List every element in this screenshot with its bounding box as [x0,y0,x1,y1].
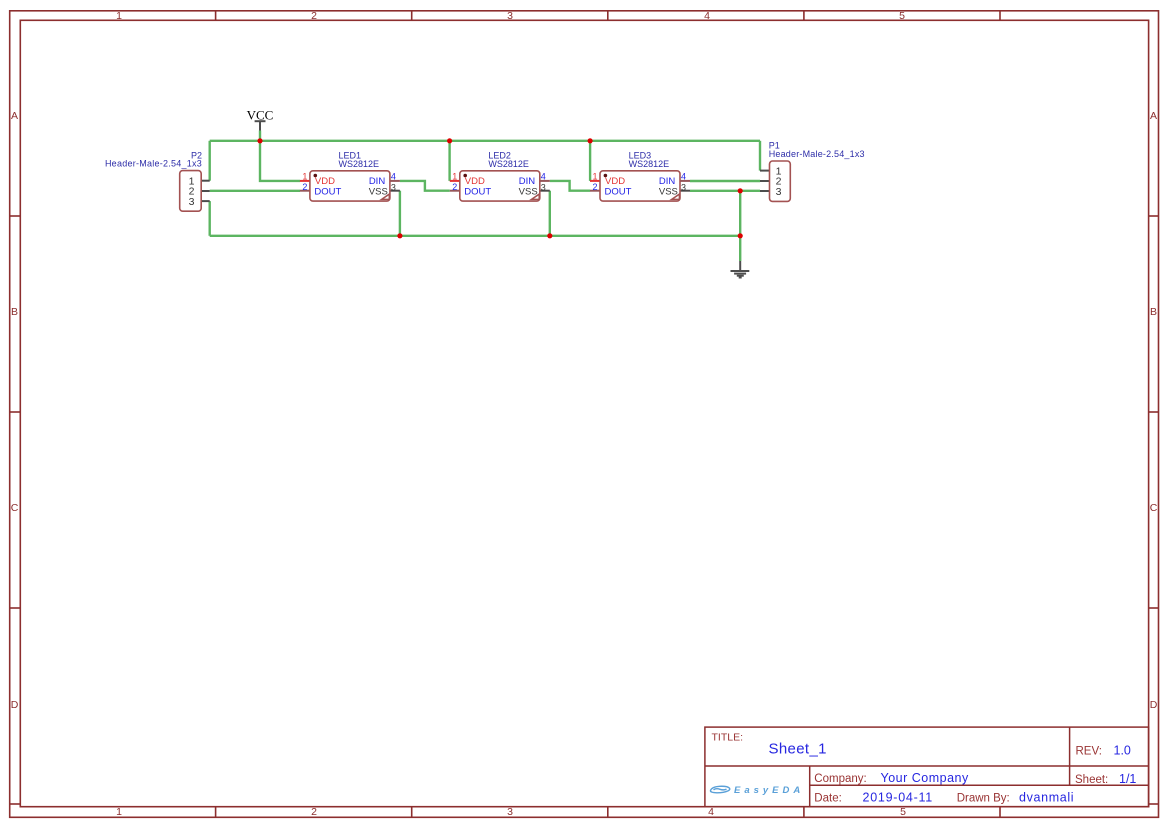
junction VSS net at ground drop top [738,188,743,193]
wire top VCC rail [210,140,760,142]
svg-text:4: 4 [704,10,710,22]
svg-text:2019-04-11: 2019-04-11 [863,791,934,805]
svg-text:VSS: VSS [369,186,388,197]
LED1 WS2812E [300,150,400,201]
svg-text:2: 2 [302,182,307,192]
wire P2 pin2 to LED1 DOUT [210,190,300,192]
wire bottom ground rail [210,235,741,237]
junction bottom rail LED2 [547,233,552,238]
svg-text:1: 1 [592,171,597,181]
pin 1 marker dot [314,174,318,178]
svg-text:DOUT: DOUT [605,186,632,197]
junction bottom rail ground [738,233,743,238]
svg-text:A: A [11,110,18,122]
wire LED3 DIN to P1 pin2 [690,180,760,182]
EasyEDA logo [710,786,729,793]
svg-text:2: 2 [452,182,457,192]
svg-text:1/1: 1/1 [1119,772,1136,786]
svg-text:3: 3 [507,10,513,22]
svg-text:D: D [11,699,19,711]
svg-text:Drawn By:: Drawn By: [957,793,1010,805]
svg-text:2: 2 [311,10,317,22]
svg-text:EasyEDA: EasyEDA [734,785,804,796]
svg-text:4: 4 [708,806,714,818]
svg-text:1.0: 1.0 [1114,744,1131,758]
svg-text:1: 1 [302,171,307,181]
junction VCC rail at LED3 feed [588,138,593,143]
LED3 WS2812E [590,150,690,201]
pin 4 stub [680,180,690,182]
pin 2 stub [300,190,310,192]
svg-text:4: 4 [681,171,686,181]
pin 1 stub [300,180,310,182]
wire LED1 DIN to LED2 DOUT [400,181,450,191]
svg-text:1: 1 [452,171,457,181]
svg-text:3: 3 [541,182,546,192]
svg-text:DOUT: DOUT [314,186,341,197]
junction bottom rail LED1 [397,233,402,238]
svg-text:REV:: REV: [1076,746,1102,758]
svg-text:Your Company: Your Company [881,771,969,785]
svg-text:5: 5 [900,806,906,818]
svg-text:TITLE:: TITLE: [712,732,744,744]
wire VSS drop to bottom rail [739,191,741,236]
pin 1 marker dot [463,174,467,178]
ground symbol [731,261,750,278]
net VCC power symbol [247,108,274,131]
svg-text:VSS: VSS [659,186,678,197]
wire ground drop [739,236,741,261]
pin 1 marker dot [604,174,608,178]
junction VCC rail at LED2 feed [447,138,452,143]
svg-text:2: 2 [311,806,317,818]
svg-text:D: D [1150,699,1158,711]
pin 3 stub [390,190,400,192]
svg-text:B: B [1150,306,1157,318]
svg-text:4: 4 [541,171,546,181]
svg-text:C: C [11,502,19,514]
wire LED1 VSS drop [399,191,401,236]
title block [705,727,1149,807]
wire VDD feed LED3 [589,141,591,181]
svg-text:WS2812E: WS2812E [488,159,529,169]
svg-text:3: 3 [189,196,195,208]
fold mark [382,194,390,199]
svg-text:B: B [11,306,18,318]
svg-text:3: 3 [681,182,686,192]
svg-text:DOUT: DOUT [464,186,491,197]
svg-text:WS2812E: WS2812E [629,159,670,169]
connector P2 [105,150,210,211]
svg-text:1: 1 [116,10,122,22]
wire VDD feed LED2 [448,141,450,181]
wire VDD feed LED1 [260,141,300,181]
connector P1 [760,140,865,201]
svg-text:1: 1 [116,806,122,818]
wire drop to P1 pin1 [759,141,761,171]
wire LED2 DIN to LED3 DOUT [550,181,590,191]
pin 1 stub [450,180,460,182]
svg-text:Sheet_1: Sheet_1 [769,740,827,757]
svg-text:A: A [1150,110,1157,122]
junction VCC rail at VCC [257,138,262,143]
wire drop to P2 pin1 [208,141,210,181]
pin 4 stub [390,180,400,182]
svg-text:4: 4 [391,171,396,181]
wire LED2 VSS drop [549,191,551,236]
svg-text:Date:: Date: [814,793,842,805]
fold mark [532,194,540,199]
pin 2 stub [590,190,600,192]
svg-text:5: 5 [899,10,905,22]
pin 3 stub [540,190,550,192]
svg-text:2: 2 [592,182,597,192]
wire LED3 VSS to P1 pin3 [690,190,760,192]
svg-text:3: 3 [776,186,782,198]
svg-text:WS2812E: WS2812E [339,159,380,169]
svg-text:dvanmali: dvanmali [1019,791,1074,805]
fold mark [672,194,680,199]
LED2 WS2812E [450,150,550,201]
pin 1 stub [590,180,600,182]
wire VCC symbol drop [259,131,261,141]
svg-text:3: 3 [507,806,513,818]
svg-text:3: 3 [391,182,396,192]
svg-text:Sheet:: Sheet: [1075,774,1108,786]
pin 4 stub [540,180,550,182]
svg-text:Header-Male-2.54_1x3: Header-Male-2.54_1x3 [769,149,865,159]
svg-text:C: C [1150,502,1158,514]
svg-text:Company:: Company: [814,773,866,785]
pin 3 stub [680,190,690,192]
pin 2 stub [450,190,460,192]
svg-text:VSS: VSS [519,186,538,197]
wire P2 pin3 drop [208,201,210,236]
svg-text:Header-Male-2.54_1x3: Header-Male-2.54_1x3 [105,159,202,169]
